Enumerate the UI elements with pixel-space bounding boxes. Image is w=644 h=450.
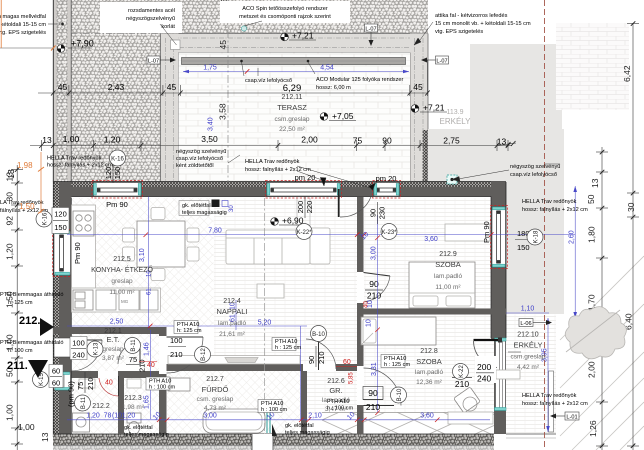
interior wall nappali/furdo horizontal <box>160 364 357 371</box>
left outer wall <box>53 182 72 437</box>
svg-text:HELLA Trav redőnyök: HELLA Trav redőnyök <box>47 156 102 162</box>
svg-text:75: 75 <box>76 382 85 390</box>
svg-text:212.7: 212.7 <box>206 376 224 383</box>
svg-text:h: 125 cm: h: 125 cm <box>8 300 33 306</box>
door B-10 nappali to szoba 212.9 <box>357 272 390 303</box>
svg-text:3,00: 3,00 <box>203 413 217 420</box>
svg-text:4,54: 4,54 <box>320 65 334 72</box>
svg-text:K-18: K-18 <box>534 230 540 243</box>
svg-text:PTH A10: PTH A10 <box>327 399 349 405</box>
svg-text:K-16: K-16 <box>43 212 49 225</box>
svg-text:ACO Modular 125 folyóka rendsz: ACO Modular 125 folyóka rendszer <box>316 77 404 83</box>
svg-text:teljes magasságig: teljes magasságig <box>124 432 169 438</box>
pm texts <box>67 173 492 407</box>
svg-text:FÜRDŐ: FÜRDŐ <box>202 385 229 394</box>
property red dashed line <box>544 0 546 450</box>
svg-text:MG: MG <box>121 299 129 304</box>
blue dim texts <box>86 117 575 421</box>
svg-text:1,00: 1,00 <box>63 134 80 144</box>
svg-text:4,73 m²: 4,73 m² <box>204 405 227 412</box>
balcony bottom edge <box>506 433 556 435</box>
small black squares / tech symbols <box>212 200 220 208</box>
shelf 212.3 <box>79 379 95 388</box>
svg-text:(10: (10 <box>112 413 122 420</box>
svg-text:csap.víz lefolyócső: csap.víz lefolyócső <box>245 78 292 84</box>
left chain rotated texts <box>6 169 16 179</box>
GR left wall <box>301 364 307 434</box>
dining table <box>137 221 185 267</box>
svg-text:120: 120 <box>104 167 113 180</box>
svg-text:ERKÉLY: ERKÉLY <box>513 341 542 350</box>
svg-text:30: 30 <box>229 205 235 212</box>
svg-text:100: 100 <box>170 336 183 345</box>
window K-16 top <box>92 181 143 199</box>
svg-text:K-22: K-22 <box>459 365 465 378</box>
svg-text:+7,21: +7,21 <box>292 31 314 41</box>
svg-text:NAPPALI: NAPPALI <box>216 307 247 316</box>
svg-text:B-12: B-12 <box>201 348 207 361</box>
svg-text:150: 150 <box>54 223 67 232</box>
neighbour brick zone top right <box>556 23 629 110</box>
svg-text:HELLA Trav redőnyök: HELLA Trav redőnyök <box>522 393 577 399</box>
terrace parapet left band <box>161 34 179 183</box>
svg-text:lam.padló: lam.padló <box>218 320 247 327</box>
svg-text:PTH Blemmagas áthidaló: PTH Blemmagas áthidaló <box>0 292 63 298</box>
svg-text:22,50 m²: 22,50 m² <box>279 126 305 133</box>
svg-text:greslap: greslap <box>111 278 133 285</box>
svg-text:hossz: falnyílás + 2x12 cm: hossz: falnyílás + 2x12 cm <box>522 207 588 213</box>
svg-text:100: 100 <box>72 339 85 348</box>
svg-text:60: 60 <box>52 367 60 376</box>
svg-text:5,85: 5,85 <box>349 372 355 384</box>
svg-text:L-07: L-07 <box>148 59 159 65</box>
window K-18 right wall <box>491 206 508 269</box>
dash-dot section line nappali <box>264 198 266 434</box>
black dim texts <box>42 82 506 147</box>
svg-text:lam.padló: lam.padló <box>415 369 444 376</box>
roof dashed line over speckle <box>72 33 161 35</box>
svg-text:212.: 212. <box>19 315 40 327</box>
svg-text:K-23*: K-23* <box>381 230 397 236</box>
svg-text:200: 200 <box>296 201 305 214</box>
svg-text:+7,21: +7,21 <box>423 103 445 113</box>
svg-text:SZOBA: SZOBA <box>416 357 441 366</box>
svg-text:212.5: 212.5 <box>113 256 131 263</box>
svg-text:HELLA Trav redőnyök: HELLA Trav redőnyök <box>522 199 577 205</box>
svg-text:h : 100 cm: h : 100 cm <box>149 385 175 391</box>
svg-text:ACO Spin tetőösszefolyó rendsz: ACO Spin tetőösszefolyó rendszer <box>242 6 328 12</box>
svg-text:2,43: 2,43 <box>108 82 125 92</box>
attic roof speckled region top strip <box>161 0 429 34</box>
svg-text:75: 75 <box>129 355 137 364</box>
svg-text:4,42 m²: 4,42 m² <box>517 364 540 371</box>
terrace parapet top band <box>161 34 429 53</box>
svg-text:1,20: 1,20 <box>5 243 15 260</box>
balcony door K-22 right <box>474 338 507 411</box>
left vertical chain x=17 <box>16 165 18 450</box>
svg-text:hossz: 6,00 m: hossz: 6,00 m <box>316 85 351 91</box>
svg-text:212.11: 212.11 <box>282 94 303 101</box>
interior wall nappali/szoba vertical <box>357 197 364 435</box>
svg-text:ERKÉLY: ERKÉLY <box>440 117 472 126</box>
svg-text:2,00: 2,00 <box>587 361 597 378</box>
gap in bottom wall <box>252 434 273 450</box>
svg-text:négyszög szelvényű: négyszög szelvényű <box>510 164 560 170</box>
svg-text:L-07: L-07 <box>436 59 447 65</box>
svg-text:Pm 90: Pm 90 <box>482 221 491 243</box>
svg-text:60: 60 <box>343 359 351 366</box>
svg-text:240: 240 <box>477 374 491 384</box>
washbasin furdo <box>168 378 190 391</box>
balcony railing right <box>549 371 554 432</box>
svg-text:212.10: 212.10 <box>517 332 539 339</box>
svg-text:11,00 m²: 11,00 m² <box>109 289 135 296</box>
svg-text:210: 210 <box>317 351 326 364</box>
bed szoba 212.9 <box>409 262 475 308</box>
door B-12 (ET to nappali) <box>159 336 203 374</box>
svg-text:13: 13 <box>40 432 50 442</box>
svg-text:gk. előtétfal: gk. előtétfal <box>285 423 314 429</box>
svg-text:ként zöldtetőtől: ként zöldtetőtől <box>176 163 214 169</box>
svg-text:210: 210 <box>366 402 380 412</box>
svg-text:h: 100 cm: h: 100 cm <box>8 348 33 354</box>
svg-text:1,98 m²: 1,98 m² <box>122 404 145 411</box>
right side light gray zone <box>470 44 562 129</box>
svg-text:40: 40 <box>105 380 113 387</box>
svg-text:gk. előtétfal: gk. előtétfal <box>182 203 211 209</box>
red annotation texts <box>105 301 370 387</box>
svg-text:60: 60 <box>52 379 60 388</box>
svg-text:210: 210 <box>86 377 95 390</box>
svg-text:+7,05: +7,05 <box>332 111 354 121</box>
window K-15 left <box>54 372 71 390</box>
svg-text:200: 200 <box>477 362 491 372</box>
svg-text:GR.: GR. <box>329 386 342 395</box>
apartment top wall <box>53 182 506 197</box>
svg-text:230: 230 <box>378 207 387 220</box>
svg-text:3,60: 3,60 <box>420 413 434 420</box>
wc 212.3 <box>127 413 141 423</box>
svg-text:csm.greslap: csm.greslap <box>510 354 545 361</box>
svg-text:2,00: 2,00 <box>301 135 318 145</box>
svg-text:PTH Blemmagas áthidaló: PTH Blemmagas áthidaló <box>0 340 63 346</box>
svg-text:h: 125 cm: h: 125 cm <box>177 328 202 334</box>
window K-16 left wall <box>53 230 73 277</box>
svg-text:kétoldali 15-15 cm: kétoldali 15-15 cm <box>1 22 47 28</box>
orange annotations <box>0 0 56 214</box>
svg-text:négyszögszelvényű: négyszögszelvényű <box>126 16 175 22</box>
teal corner glass marks bottom furdo <box>267 408 270 433</box>
svg-text:3,87 m²: 3,87 m² <box>102 355 125 362</box>
svg-text:3,10: 3,10 <box>139 248 146 262</box>
svg-text:L-06: L-06 <box>520 321 531 327</box>
svg-text:212.6: 212.6 <box>327 378 345 385</box>
svg-text:1,20: 1,20 <box>122 413 136 420</box>
dash-dot section line terrace <box>227 0 229 182</box>
svg-text:L-07: L-07 <box>365 27 376 33</box>
door B-10 furdo <box>303 337 336 371</box>
svg-text:1,46: 1,46 <box>144 342 151 356</box>
red tick slashes on blue dims <box>144 232 494 422</box>
stove <box>73 211 94 236</box>
door B-10 szoba 212.8 <box>357 366 401 406</box>
right outer wall <box>491 182 506 340</box>
far right chain x=633 <box>632 23 634 450</box>
svg-text:1,75: 1,75 <box>203 65 217 72</box>
desk szoba 212.8 bottom <box>448 412 493 424</box>
window size fraction labels <box>49 163 533 412</box>
svg-text:10: 10 <box>366 319 373 327</box>
svg-text:L-01: L-01 <box>566 415 577 421</box>
svg-text:210: 210 <box>367 291 381 301</box>
washing machine 212.2 <box>73 413 90 432</box>
svg-text:1,98: 1,98 <box>17 161 33 170</box>
svg-text:2,60: 2,60 <box>569 230 576 244</box>
svg-text:csap.víz lefolyócső: csap.víz lefolyócső <box>176 156 223 162</box>
svg-text:40: 40 <box>364 301 370 308</box>
sofa <box>226 230 310 264</box>
svg-text:1,00: 1,00 <box>18 422 35 432</box>
kitchen bottom counter row <box>72 288 161 312</box>
chair szoba 212.8 <box>454 387 481 413</box>
svg-text:h : 100 cm: h : 100 cm <box>261 407 287 413</box>
svg-text:3,58: 3,58 <box>218 103 228 120</box>
terrace door <box>339 189 371 217</box>
svg-text:45: 45 <box>218 40 228 50</box>
svg-text:metszet és csomóponti rajzok s: metszet és csomóponti rajzok szerint <box>239 14 331 20</box>
svg-text:212.4: 212.4 <box>223 298 241 305</box>
kitchen/ET wall <box>53 327 166 334</box>
svg-text:13: 13 <box>5 172 15 182</box>
svg-text:61: 61 <box>147 288 153 295</box>
svg-text:+7,90: +7,90 <box>71 39 94 49</box>
svg-text:m magas mellvédfal: m magas mellvédfal <box>0 14 46 20</box>
svg-text:K-16: K-16 <box>111 157 124 163</box>
svg-text:3,60: 3,60 <box>424 236 438 243</box>
svg-text:40: 40 <box>147 362 155 369</box>
svg-text:h : 125 cm: h : 125 cm <box>384 362 410 368</box>
svg-text:vtg. EPS szigetelés: vtg. EPS szigetelés <box>435 29 483 35</box>
svg-text:Pm 90: Pm 90 <box>73 242 82 264</box>
leader lines <box>48 21 560 352</box>
right chain x=602 <box>601 147 603 450</box>
svg-text:2,10: 2,10 <box>308 413 322 420</box>
svg-text:13: 13 <box>590 178 600 188</box>
window K-23 top <box>373 181 401 199</box>
svg-text:(pm 90): (pm 90) <box>67 381 76 407</box>
svg-text:négyszög szelvényű: négyszög szelvényű <box>176 149 226 155</box>
PTH lintel boxes <box>146 321 410 414</box>
blue 1,75 / 4,54 on terrace <box>183 71 409 73</box>
svg-text:150: 150 <box>113 167 122 180</box>
svg-text:1,10: 1,10 <box>521 306 535 313</box>
svg-text:3,00: 3,00 <box>371 246 378 260</box>
svg-text:50: 50 <box>586 194 596 204</box>
svg-text:1,80: 1,80 <box>587 226 597 243</box>
svg-text:B-10: B-10 <box>312 332 325 338</box>
svg-text:240: 240 <box>72 351 85 360</box>
svg-text:1,20: 1,20 <box>104 135 121 145</box>
svg-text:h : 125 cm: h : 125 cm <box>275 345 301 351</box>
svg-text:vtg. EPS szigetelés: vtg. EPS szigetelés <box>0 30 46 36</box>
svg-text:5,20: 5,20 <box>258 320 272 327</box>
svg-text:B-10: B-10 <box>397 388 403 401</box>
svg-text:211.: 211. <box>7 360 28 372</box>
drain marker box top right <box>447 175 457 184</box>
svg-text:212.1: 212.1 <box>104 328 122 335</box>
svg-text:150: 150 <box>517 243 530 252</box>
drain marker box terrace top left <box>171 40 181 50</box>
svg-text:csap.víz lefolyócső: csap.víz lefolyócső <box>510 172 557 178</box>
svg-text:E.T.: E.T. <box>107 335 120 344</box>
svg-text:13: 13 <box>497 137 507 147</box>
svg-text:45: 45 <box>58 82 68 92</box>
entrance labels <box>7 315 54 378</box>
svg-text:teljes magasságig: teljes magasságig <box>182 210 227 216</box>
terrace parapet right band <box>410 34 428 187</box>
erkely furniture <box>496 370 520 379</box>
svg-text:B-11: B-11 <box>131 339 137 352</box>
bottom outer wall speckled <box>53 434 494 445</box>
window K-22 top <box>266 181 342 227</box>
svg-text:11,00 m²: 11,00 m² <box>435 284 461 291</box>
bathtub <box>203 409 265 433</box>
entrance door K-13 left <box>54 338 102 371</box>
svg-text:90: 90 <box>382 136 392 146</box>
svg-text:78: 78 <box>104 413 112 420</box>
svg-text:45: 45 <box>167 82 177 92</box>
tree bottom right <box>565 307 626 359</box>
svg-text:3,50: 3,50 <box>201 134 218 144</box>
svg-text:SZOBA: SZOBA <box>435 260 460 269</box>
svg-text:korlát: korlát <box>161 24 175 30</box>
left attic wall band <box>53 0 72 182</box>
svg-text:45: 45 <box>413 82 423 92</box>
svg-text:92: 92 <box>5 216 15 226</box>
wall between szoba 212.8 and erkely <box>494 339 506 434</box>
wall 212.2/212.3 horizontal <box>72 371 167 378</box>
tv sideboard <box>168 356 300 365</box>
svg-text:30: 30 <box>626 202 636 212</box>
svg-text:K-22*: K-22* <box>296 230 312 236</box>
svg-text:1,20: 1,20 <box>86 413 100 420</box>
svg-text:15 cm monolit vb. + kétoldali: 15 cm monolit vb. + kétoldali 15-15 cm <box>435 21 531 27</box>
svg-text:6,29: 6,29 <box>283 83 302 94</box>
room floor textures <box>72 198 214 327</box>
svg-text:212.3: 212.3 <box>124 395 142 402</box>
svg-text:rozsdamentes acél: rozsdamentes acél <box>128 8 175 14</box>
svg-text:K-13: K-13 <box>94 342 100 355</box>
drainage channel on terrace <box>182 58 406 65</box>
svg-text:HELLA Trav redőnyök: HELLA Trav redőnyök <box>245 159 300 165</box>
svg-text:2,50: 2,50 <box>110 319 124 326</box>
door B-11 upper (212.3) <box>118 342 141 371</box>
bottom right plot diagonal hatch <box>560 256 644 450</box>
svg-text:120: 120 <box>54 210 67 219</box>
svg-text:Pm 90: Pm 90 <box>106 200 128 209</box>
coffee table <box>257 284 284 298</box>
svg-text:h : 100 cm: h : 100 cm <box>327 406 353 412</box>
svg-text:csm. greslap: csm. greslap <box>197 396 234 403</box>
svg-text:csm.greslap: csm.greslap <box>274 116 309 123</box>
svg-text:1,50: 1,50 <box>19 202 35 211</box>
svg-text:212.8: 212.8 <box>420 348 438 355</box>
svg-text:teljes magasságig: teljes magasságig <box>285 430 330 436</box>
svg-text:21,61 m²: 21,61 m² <box>219 331 245 338</box>
attic roof speckled region left <box>72 0 161 182</box>
wall 212.2/212.3 vertical <box>118 371 124 434</box>
svg-text:7,80: 7,80 <box>208 228 222 235</box>
svg-text:KONYHA- ÉTKEZŐ: KONYHA- ÉTKEZŐ <box>91 265 153 274</box>
svg-text:B-11: B-11 <box>81 396 87 409</box>
svg-text:75: 75 <box>353 136 363 146</box>
door B-11 lower (212.2) red arc <box>98 371 119 396</box>
desk szoba 212.9 top <box>445 224 490 241</box>
svg-text:gk. előtétfal: gk. előtétfal <box>124 425 153 431</box>
svg-text:TERASZ: TERASZ <box>277 103 307 112</box>
svg-text:6,42: 6,42 <box>622 65 632 82</box>
svg-text:2,75: 2,75 <box>443 136 460 146</box>
bed szoba 212.8 <box>361 317 436 345</box>
terrace floor <box>179 53 411 183</box>
svg-text:13: 13 <box>42 135 52 145</box>
interior wall ET vertical <box>159 327 167 434</box>
chain terrace y=93 <box>38 92 428 94</box>
svg-text:1,26: 1,26 <box>588 420 598 437</box>
svg-text:hossz: falnyílás + 2x12 cm: hossz: falnyílás + 2x12 cm <box>522 401 588 407</box>
svg-text:210: 210 <box>455 379 469 389</box>
right chain 2,75/13 tail <box>497 143 516 146</box>
svg-text:90: 90 <box>368 388 378 398</box>
wall between szoba 212.9 / 212.8 <box>357 309 506 315</box>
kitchen counter left column <box>72 205 96 312</box>
svg-text:220: 220 <box>305 201 314 214</box>
svg-text:greslap: greslap <box>102 346 124 353</box>
svg-text:90: 90 <box>369 209 378 217</box>
svg-text:212.2: 212.2 <box>92 403 110 410</box>
svg-text:3,40: 3,40 <box>208 117 215 131</box>
svg-text:attika fal - kétvizorros lefed: attika fal - kétvizorros lefedés <box>435 13 508 19</box>
svg-text:1,65: 1,65 <box>144 395 151 409</box>
svg-text:lam.padló: lam.padló <box>434 273 463 280</box>
svg-text:pm 20: pm 20 <box>295 173 316 182</box>
svg-text:pm 20: pm 20 <box>376 174 397 183</box>
svg-text:12,36 m²: 12,36 m² <box>416 379 442 386</box>
big X hatch deck strip bottom <box>322 413 506 435</box>
svg-text:113.9: 113.9 <box>447 109 464 116</box>
svg-text:1,00: 1,00 <box>5 404 15 421</box>
chain y=145.5 <box>30 145 512 147</box>
svg-text:210: 210 <box>170 350 183 359</box>
svg-text:212.9: 212.9 <box>439 251 457 258</box>
svg-text:90: 90 <box>307 356 316 364</box>
svg-text:3,31: 3,31 <box>371 362 378 376</box>
